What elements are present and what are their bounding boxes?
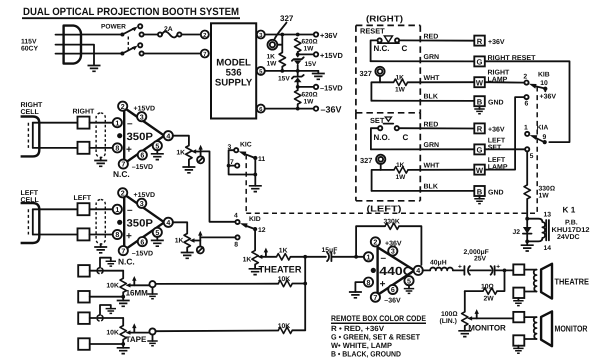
svg-text:–36V: –36V bbox=[384, 298, 401, 305]
svg-text:THEATER: THEATER bbox=[259, 263, 302, 274]
ground (left B terminal) bbox=[474, 196, 484, 204]
speaker MONITOR bbox=[541, 311, 588, 346]
svg-text:SUPPLY: SUPPLY bbox=[215, 78, 253, 89]
svg-text:12: 12 bbox=[258, 227, 266, 234]
svg-text:7: 7 bbox=[373, 294, 377, 302]
svg-text:14: 14 bbox=[544, 245, 552, 252]
svg-text:THEATRE: THEATRE bbox=[555, 277, 590, 287]
svg-text:3: 3 bbox=[140, 113, 144, 121]
node left wiper junction with test point bbox=[197, 231, 204, 254]
pin 3 (350P right) bbox=[137, 112, 146, 121]
svg-text:KIB: KIB bbox=[538, 71, 550, 78]
pin 4 (350P right) bbox=[164, 131, 173, 140]
jack (tape wiper out) bbox=[149, 328, 278, 341]
ground (KIC common) bbox=[249, 186, 262, 192]
note K1 P.B. KHU17D12 24VDC bbox=[552, 206, 590, 242]
svg-text:–36V: –36V bbox=[321, 105, 342, 115]
wire right cell top to connector bbox=[33, 122, 78, 124]
svg-text:W: W bbox=[476, 79, 484, 88]
wire +15VD tap bbox=[296, 52, 314, 57]
svg-text:+36V: +36V bbox=[488, 39, 505, 46]
zener VR1 15V bbox=[292, 57, 317, 71]
ground (theatre return) bbox=[513, 298, 523, 306]
node right wiper junction with test point bbox=[197, 145, 204, 164]
resistor 1K (theater to mixer) bbox=[277, 248, 291, 260]
svg-text:1: 1 bbox=[115, 206, 119, 214]
op-amp U3 350P (left) bbox=[117, 194, 164, 250]
svg-text:P.B.: P.B. bbox=[565, 219, 578, 226]
svg-text:G: G bbox=[477, 146, 483, 155]
svg-text:+36V: +36V bbox=[385, 240, 402, 247]
svg-text:DUAL OPTICAL PROJECTION BOOTH: DUAL OPTICAL PROJECTION BOOTH SYSTEM bbox=[23, 6, 239, 18]
svg-text:6: 6 bbox=[391, 286, 395, 294]
ground (monitor return) bbox=[513, 346, 523, 353]
note REMOTE BOX COLOR CODE bbox=[331, 314, 427, 358]
pin 2 (440C) bbox=[371, 237, 380, 246]
photocell PC1 (right) bbox=[21, 117, 40, 157]
svg-text:REMOTE BOX COLOR CODE: REMOTE BOX COLOR CODE bbox=[331, 314, 427, 323]
svg-text:RIGHT: RIGHT bbox=[488, 69, 511, 76]
svg-text:8: 8 bbox=[115, 145, 119, 153]
relay contact KID bbox=[234, 213, 266, 249]
connector (right cell hot) bbox=[78, 117, 90, 129]
mechanical linkage (relay, dashed) bbox=[246, 87, 537, 214]
svg-text:RIGHT: RIGHT bbox=[73, 109, 96, 116]
resistor 620 ohm 1W (lower) bbox=[295, 90, 318, 105]
svg-text:1K: 1K bbox=[279, 248, 288, 255]
ground (relay coil) bbox=[521, 241, 534, 251]
pin 6 (350P right) bbox=[138, 150, 147, 159]
svg-text:2W: 2W bbox=[484, 295, 495, 302]
terminal B (right gnd) bbox=[474, 96, 503, 106]
pin 5 (350P right) bbox=[153, 141, 162, 150]
wire GRN (left) bbox=[371, 142, 474, 149]
ground (16mm shield) bbox=[106, 261, 116, 266]
wire lamp to 1K dropper bbox=[277, 36, 282, 52]
ground (16mm jack) bbox=[147, 294, 157, 299]
svg-text:1W: 1W bbox=[539, 192, 550, 199]
wire WHT (right) bbox=[408, 75, 474, 82]
ground (left cable shield) bbox=[94, 247, 107, 253]
ground (supply midpoint) bbox=[312, 74, 325, 80]
svg-text:B: B bbox=[477, 187, 483, 196]
svg-text:2: 2 bbox=[121, 190, 125, 198]
pin 5 (350P left) bbox=[153, 228, 162, 237]
wire RED (right) bbox=[399, 34, 474, 41]
lamp DS3 327 (left) bbox=[360, 155, 385, 170]
wire right wiper to KID pin 4 bbox=[201, 151, 236, 221]
svg-text:N.C.: N.C. bbox=[374, 44, 390, 53]
potentiometer 10K (tape level) bbox=[106, 318, 149, 344]
svg-text:1W: 1W bbox=[304, 99, 315, 106]
svg-text:115V: 115V bbox=[21, 39, 37, 46]
resistor 1K 1W (right lamp) bbox=[380, 74, 408, 93]
resistor 10 ohm 2W bbox=[465, 284, 497, 303]
svg-text:10Ω: 10Ω bbox=[481, 284, 494, 291]
svg-text:330K: 330K bbox=[384, 218, 400, 225]
wire left wiper to KID pin 8 bbox=[200, 236, 235, 238]
shield feedthrough (tape) bbox=[90, 305, 124, 321]
wire reset to GRN bbox=[371, 40, 378, 61]
pushbutton SET (N.O.) bbox=[370, 116, 409, 142]
transformer T2 monitor return connector bbox=[513, 335, 524, 345]
ground (tape shield) bbox=[106, 309, 116, 314]
svg-text:1K: 1K bbox=[267, 54, 276, 61]
svg-text:R: R bbox=[477, 125, 483, 134]
svg-text:5: 5 bbox=[407, 277, 411, 285]
terminal G (right reset) bbox=[474, 55, 536, 67]
svg-text:24VDC: 24VDC bbox=[557, 234, 580, 241]
ground (440C pin 8) bbox=[349, 282, 364, 298]
svg-text:RIGHT: RIGHT bbox=[21, 102, 44, 109]
ground (monitor pot) bbox=[458, 326, 471, 337]
svg-text:BLK: BLK bbox=[424, 184, 438, 191]
svg-text:3: 3 bbox=[391, 248, 395, 256]
potentiometer 1K (left gain) bbox=[175, 234, 201, 248]
svg-text:2: 2 bbox=[523, 74, 527, 81]
svg-text:(LEFT): (LEFT) bbox=[367, 204, 402, 214]
svg-text:620Ω: 620Ω bbox=[302, 39, 318, 46]
svg-text:1W: 1W bbox=[395, 87, 406, 94]
ground (tape pot) bbox=[117, 348, 130, 354]
svg-text:TAPE: TAPE bbox=[126, 335, 147, 344]
pin 1 (350P right) bbox=[113, 118, 122, 127]
svg-text:7: 7 bbox=[121, 161, 125, 169]
svg-text:4: 4 bbox=[166, 219, 170, 227]
svg-text:MONITOR: MONITOR bbox=[468, 324, 506, 333]
svg-text:WHT: WHT bbox=[424, 75, 441, 82]
svg-text:RED: RED bbox=[424, 121, 439, 128]
wire set to GRN bbox=[371, 128, 378, 149]
jack (16mm wiper out) bbox=[149, 281, 278, 294]
lamp DS2 327 (right) bbox=[360, 67, 385, 83]
transformer T2 monitor coil bbox=[524, 317, 536, 339]
ground (right B terminal) bbox=[474, 106, 484, 114]
svg-text:GRN: GRN bbox=[424, 142, 440, 149]
svg-text:SET: SET bbox=[370, 116, 385, 125]
svg-text:8: 8 bbox=[367, 279, 371, 287]
svg-text:GND: GND bbox=[488, 100, 504, 107]
svg-text:+15VD: +15VD bbox=[134, 192, 156, 199]
wire G left-set to terminal 5 bbox=[485, 147, 534, 160]
terminal +15VD bbox=[314, 51, 344, 60]
connector (right cell return) bbox=[78, 142, 90, 154]
svg-text:+15VD: +15VD bbox=[320, 51, 343, 60]
pin 4 (350P left) bbox=[164, 218, 173, 227]
pin 8 (440C) bbox=[364, 278, 373, 287]
svg-text:5: 5 bbox=[155, 229, 159, 237]
pin 5 (440C) bbox=[404, 276, 413, 285]
svg-text:1K: 1K bbox=[175, 238, 184, 245]
svg-text:4: 4 bbox=[166, 132, 170, 140]
wire W right-lamp to KIB pin 2 bbox=[485, 81, 525, 83]
svg-text:+: + bbox=[380, 279, 386, 290]
svg-text:+: + bbox=[496, 263, 500, 270]
pin 7 (supply) bbox=[201, 50, 209, 59]
lamp DS1 327 label and leader bbox=[274, 14, 294, 40]
svg-text:–: – bbox=[127, 205, 133, 216]
connector (left cell hot) bbox=[78, 203, 90, 215]
svg-text:GND: GND bbox=[488, 189, 504, 196]
svg-text:+36V: +36V bbox=[540, 94, 557, 101]
pin 7 (350P right) bbox=[119, 159, 128, 168]
svg-text:1W: 1W bbox=[267, 61, 278, 68]
svg-text:1K: 1K bbox=[396, 162, 405, 169]
svg-text:B • BLACK, GROUND: B • BLACK, GROUND bbox=[331, 349, 401, 358]
wire AC ground drop bbox=[81, 45, 94, 65]
svg-text:327: 327 bbox=[360, 69, 372, 78]
transformer T1 theatre primary connector bbox=[513, 264, 524, 274]
wire terminal 5 to 330 ohm bbox=[526, 151, 528, 185]
ground (16mm pot) bbox=[117, 301, 130, 307]
svg-text:10K: 10K bbox=[106, 282, 119, 289]
svg-text:8: 8 bbox=[234, 241, 238, 248]
svg-text:(RIGHT): (RIGHT) bbox=[366, 14, 403, 24]
svg-text:+: + bbox=[126, 231, 132, 242]
svg-text:R: R bbox=[477, 37, 483, 46]
op-amp U2 350P (right) bbox=[117, 108, 164, 164]
svg-text:KIA: KIA bbox=[537, 124, 549, 131]
svg-text:3: 3 bbox=[140, 200, 144, 208]
svg-text:KIC: KIC bbox=[240, 142, 252, 149]
svg-text:B: B bbox=[477, 98, 483, 107]
svg-text:POWER: POWER bbox=[101, 24, 126, 31]
svg-text:–: – bbox=[127, 119, 133, 130]
svg-text:LEFT: LEFT bbox=[21, 190, 39, 197]
svg-text:10: 10 bbox=[540, 80, 548, 87]
svg-text:K 1: K 1 bbox=[563, 206, 576, 215]
svg-text:1W: 1W bbox=[304, 46, 315, 53]
pin 3 (supply) bbox=[257, 31, 265, 40]
pin 2 (supply) bbox=[201, 31, 209, 40]
svg-text:16MM: 16MM bbox=[126, 288, 149, 297]
svg-text:1: 1 bbox=[524, 124, 528, 131]
svg-text:5: 5 bbox=[155, 142, 159, 150]
terminal B (left gnd) bbox=[474, 186, 503, 196]
svg-text:C: C bbox=[403, 133, 409, 142]
wire 350P right output bbox=[173, 136, 189, 146]
wire left cell bottom to connector bbox=[33, 234, 78, 236]
wire KID common to theater pot bbox=[254, 231, 256, 250]
svg-text:C: C bbox=[402, 44, 408, 53]
terminal +36V bbox=[314, 31, 338, 40]
svg-text:327: 327 bbox=[360, 156, 372, 165]
pin 1 (350P left) bbox=[113, 205, 122, 214]
wire left cell top to connector bbox=[33, 208, 78, 210]
transformer T1 theatre return connector bbox=[513, 288, 524, 298]
wire 16mm pot bottom junction bbox=[90, 292, 125, 300]
wire KIB pin 6 to left lamp line bbox=[485, 95, 529, 170]
svg-text:40μH: 40μH bbox=[430, 260, 447, 267]
pin 3 (350P left) bbox=[137, 199, 146, 208]
svg-text:1K: 1K bbox=[396, 74, 405, 81]
wire BLK (right) bbox=[371, 94, 474, 101]
svg-text:350P: 350P bbox=[127, 217, 154, 229]
wire G right-reset to KIA common bbox=[485, 61, 570, 142]
svg-text:LEFT: LEFT bbox=[488, 137, 506, 144]
wire 330 ohm to relay coil node bbox=[525, 199, 529, 242]
terminal -36V bbox=[314, 105, 342, 115]
svg-text:11: 11 bbox=[258, 156, 265, 163]
node LEFT CELL label bbox=[21, 190, 40, 204]
switch S1 POWER (DPST) bbox=[101, 24, 144, 56]
ground (right cable shield) bbox=[94, 161, 107, 167]
potentiometer 1K (right gain) bbox=[176, 146, 200, 160]
connector (tape input return) bbox=[78, 338, 90, 350]
transformer T2 monitor primary connector bbox=[513, 312, 524, 322]
relay contact KIC bbox=[227, 142, 266, 186]
svg-text:100Ω: 100Ω bbox=[441, 311, 458, 318]
lamp DS1 327 bbox=[268, 40, 278, 50]
wire GRN (right) bbox=[371, 54, 474, 61]
wire supply pin 3 to +36V terminal bbox=[265, 33, 314, 37]
transformer T1 theatre coil bbox=[524, 270, 536, 292]
terminal R (left +36V) bbox=[474, 123, 505, 133]
wire output node to 10 ohm bbox=[497, 270, 505, 291]
ground (left pot) bbox=[181, 248, 194, 259]
svg-text:RED: RED bbox=[424, 34, 439, 41]
potentiometer 100 ohm LIN MONITOR bbox=[440, 291, 514, 332]
node 115V 60CY label bbox=[21, 39, 38, 53]
photocell PC2 (left) bbox=[21, 203, 40, 243]
svg-text:350P: 350P bbox=[127, 131, 154, 143]
wire switch to supply pin 7 bbox=[144, 53, 201, 55]
svg-text:LEFT: LEFT bbox=[488, 157, 506, 164]
svg-text:6: 6 bbox=[525, 101, 529, 108]
ground (350P left pin5) bbox=[151, 237, 164, 247]
wire BLK (left) bbox=[372, 184, 474, 191]
pin 3 (440C) bbox=[388, 246, 397, 255]
ground (350P right pin5) bbox=[151, 150, 164, 160]
capacitor 2000uF 25V (pair) bbox=[458, 249, 513, 275]
svg-text:1K: 1K bbox=[243, 256, 252, 263]
remote box (RIGHT) dashed enclosure bbox=[356, 14, 420, 113]
svg-text:KID: KID bbox=[249, 216, 261, 223]
power supply U1 MODEL 536 SUPPLY bbox=[211, 23, 256, 118]
wire connector to 350P pin 8 bbox=[90, 147, 114, 149]
svg-text:327: 327 bbox=[280, 14, 294, 23]
pin 8 (350P left) bbox=[113, 230, 122, 239]
wire tape pot bottom junction bbox=[90, 340, 125, 348]
capacitor 15uF bbox=[322, 247, 365, 261]
connector (left cell return) bbox=[78, 228, 90, 240]
svg-text:1: 1 bbox=[367, 254, 371, 262]
svg-text:N.C.: N.C. bbox=[118, 257, 135, 267]
pin 6 (supply) bbox=[257, 105, 265, 114]
resistor 620 ohm 1W (upper) bbox=[295, 38, 318, 53]
svg-text:J2: J2 bbox=[513, 229, 521, 236]
svg-text:WHT: WHT bbox=[424, 163, 441, 170]
remote box (LEFT) dashed enclosure bbox=[356, 113, 420, 214]
ground (440C pin 5) bbox=[404, 285, 414, 293]
svg-text:5: 5 bbox=[530, 153, 534, 160]
svg-text:1W: 1W bbox=[396, 174, 407, 181]
svg-text:60CY: 60CY bbox=[21, 46, 38, 53]
svg-text:6: 6 bbox=[140, 238, 144, 246]
svg-text:7: 7 bbox=[121, 247, 125, 255]
svg-text:6: 6 bbox=[140, 152, 144, 160]
wire connector to left 350P pin 8 bbox=[90, 234, 114, 236]
node RIGHT CELL label bbox=[21, 102, 44, 116]
wire RED (left) bbox=[399, 121, 474, 128]
svg-text:SET: SET bbox=[488, 145, 502, 152]
pin 7 (440C) bbox=[371, 293, 380, 302]
relay contact KIA bbox=[524, 124, 548, 144]
resistor 10K (tape to mixer) bbox=[278, 323, 306, 334]
svg-text:15V: 15V bbox=[305, 61, 317, 68]
shielded cable (left cell) bbox=[96, 200, 105, 248]
wire supply pin 5 rail to ground bbox=[265, 69, 319, 74]
zener VR2 15V bbox=[278, 71, 304, 82]
wire supply pin 6 to -36V terminal bbox=[265, 104, 314, 110]
pin 7 (350P left) bbox=[119, 246, 128, 255]
svg-text:1: 1 bbox=[115, 119, 119, 127]
svg-text:(LIN.): (LIN.) bbox=[440, 318, 457, 325]
wire 1K to pin5 rail bbox=[280, 67, 284, 73]
terminal W (right lamp) bbox=[474, 69, 510, 87]
pin 2 (350P right) bbox=[118, 102, 127, 111]
shield feedthrough (16mm) bbox=[90, 258, 124, 274]
resistor 1K 1W (left lamp) bbox=[381, 162, 408, 181]
speaker THEATRE bbox=[541, 264, 589, 299]
ground (theater pot) bbox=[249, 264, 262, 274]
terminal R (right +36V) bbox=[474, 36, 505, 46]
pin 6 (350P left) bbox=[138, 237, 147, 246]
svg-text:N.C.: N.C. bbox=[113, 169, 130, 179]
pin 5 (supply) bbox=[257, 67, 265, 76]
svg-text:10K: 10K bbox=[278, 276, 291, 283]
terminal G (left set) bbox=[474, 137, 506, 154]
svg-text:4: 4 bbox=[416, 267, 420, 275]
terminal -15VD bbox=[314, 83, 343, 92]
wire -15VD tap bbox=[296, 82, 314, 90]
svg-text:GRN: GRN bbox=[424, 54, 440, 61]
wire mixer node bbox=[291, 255, 326, 330]
wire right cell bottom to connector bbox=[33, 147, 78, 149]
wire AC neutral to switch bbox=[81, 53, 121, 55]
wire connector to 350P pin 1 bbox=[90, 122, 114, 124]
potentiometer 10K (16mm level) bbox=[106, 271, 149, 298]
svg-text:W: W bbox=[476, 166, 484, 175]
svg-text:15V: 15V bbox=[278, 75, 290, 82]
svg-text:+15VD: +15VD bbox=[134, 106, 156, 113]
relay coil K1 bbox=[525, 211, 551, 252]
connector (tape input hot) bbox=[78, 312, 90, 324]
svg-text:620Ω: 620Ω bbox=[302, 92, 318, 99]
resistor 1K 1W (lamp dropper) bbox=[267, 53, 286, 68]
svg-text:25V: 25V bbox=[474, 256, 487, 263]
terminal W (left lamp) bbox=[474, 157, 508, 175]
svg-text:–15VD: –15VD bbox=[132, 251, 153, 258]
svg-text:N.O.: N.O. bbox=[374, 133, 390, 142]
shielded cable (right cell) bbox=[96, 113, 105, 161]
relay contact KIB bbox=[523, 71, 556, 100]
ground (right pot) bbox=[182, 160, 195, 173]
svg-text:8: 8 bbox=[115, 231, 119, 239]
title DUAL OPTICAL PROJECTION BOOTH SYSTEM bbox=[22, 6, 240, 18]
svg-text:–15VD: –15VD bbox=[132, 164, 153, 171]
connector (16mm input hot) bbox=[78, 265, 90, 277]
ground (tape jack) bbox=[147, 341, 157, 346]
svg-text:–15VD: –15VD bbox=[320, 83, 343, 92]
wire lamp to BLK bbox=[371, 82, 380, 100]
wire AC hot to switch bbox=[81, 34, 121, 36]
svg-text:BLK: BLK bbox=[424, 94, 438, 101]
wire 350P left output bbox=[173, 222, 188, 233]
svg-text:9: 9 bbox=[543, 134, 547, 141]
pin 8 (350P right) bbox=[113, 143, 122, 152]
svg-text:G: G bbox=[477, 58, 483, 67]
